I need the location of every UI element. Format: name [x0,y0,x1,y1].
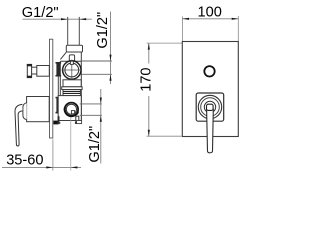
wall plate front view [182,42,238,137]
flange right lower [77,121,82,124]
leg left [58,116,60,123]
extension line 170 bottom [147,135,182,137]
arrowhead upper-right top [109,55,111,61]
arrowhead top-left [61,18,68,20]
cartridge circle outer [63,61,81,79]
upper back port lines [81,61,112,74]
dimension line 100 [182,18,238,20]
lower body threaded box [63,90,80,96]
dimension bottom 35-60 [2,166,81,168]
extension line 170 top [147,42,182,44]
svg-text:35-60: 35-60 [6,153,43,169]
diverter knob cap [27,64,31,77]
cartridge circle inner [65,63,79,77]
arrowhead 100 left [182,18,189,20]
extension line valve centre [70,117,72,171]
diverter knob neck [30,67,37,74]
dimension upper-right G1/2" [110,12,112,85]
wall plate side view [50,39,53,138]
bracket dark clamp lower [56,97,60,113]
handle lever [15,104,22,146]
chamfer body top-left [60,52,66,59]
bracket dark foot [53,121,58,125]
svg-text:100: 100 [198,4,222,20]
arrowhead bottom-right [71,166,78,168]
svg-text:G1/2": G1/2" [22,5,59,21]
lower circle notch [71,111,74,114]
lower circle outer [65,103,78,116]
lower body box1 [63,80,81,87]
dimension lower-right G1/2" [100,89,102,164]
arrowhead lower-right bottom [100,115,102,121]
arrowhead bottom-left [46,166,53,168]
lower body flange [62,87,82,90]
bracket dark clamp upper [56,62,60,76]
dimension line top port [23,18,92,20]
cartridge slot [70,61,73,64]
wire top pipe outline [68,17,80,46]
bracket rail [57,77,59,98]
cartridge crosshair [62,60,82,81]
diverter knob front view [204,66,214,76]
lever hub front [207,104,214,110]
handle escutcheon square front [196,93,224,121]
arrowhead lower-right top [100,98,102,104]
handle circle inner [204,101,215,112]
dimension line 170 [148,43,150,63]
lower back port lines [80,104,102,115]
arrowhead 170 bottom [148,130,150,137]
handle hub cone [23,103,27,120]
handle circle middle [201,98,220,117]
leg right [76,116,79,123]
extension line 100 left [181,16,183,41]
handle circle outer [198,95,221,118]
fitting top nut [66,45,82,52]
svg-text:G1/2": G1/2" [95,12,111,49]
lower body main box [58,96,81,121]
arrowhead 100 right [232,18,239,20]
svg-text:170: 170 [139,67,155,91]
screw stub on body [69,55,74,62]
arrowhead upper-right bottom [109,74,111,80]
lower circle inner [66,104,76,114]
extension line plate [52,139,54,170]
lever stem front [207,109,214,153]
arrowhead top-right [80,18,87,20]
handle escutcheon box [27,97,50,122]
body outline [60,52,81,120]
svg-text:G1/2": G1/2" [87,126,103,163]
diverter knob ring box [37,66,50,77]
lower circle dark bottom arc [65,108,78,117]
arrowhead 170 top [148,43,150,50]
extension line 100 right [237,16,239,41]
